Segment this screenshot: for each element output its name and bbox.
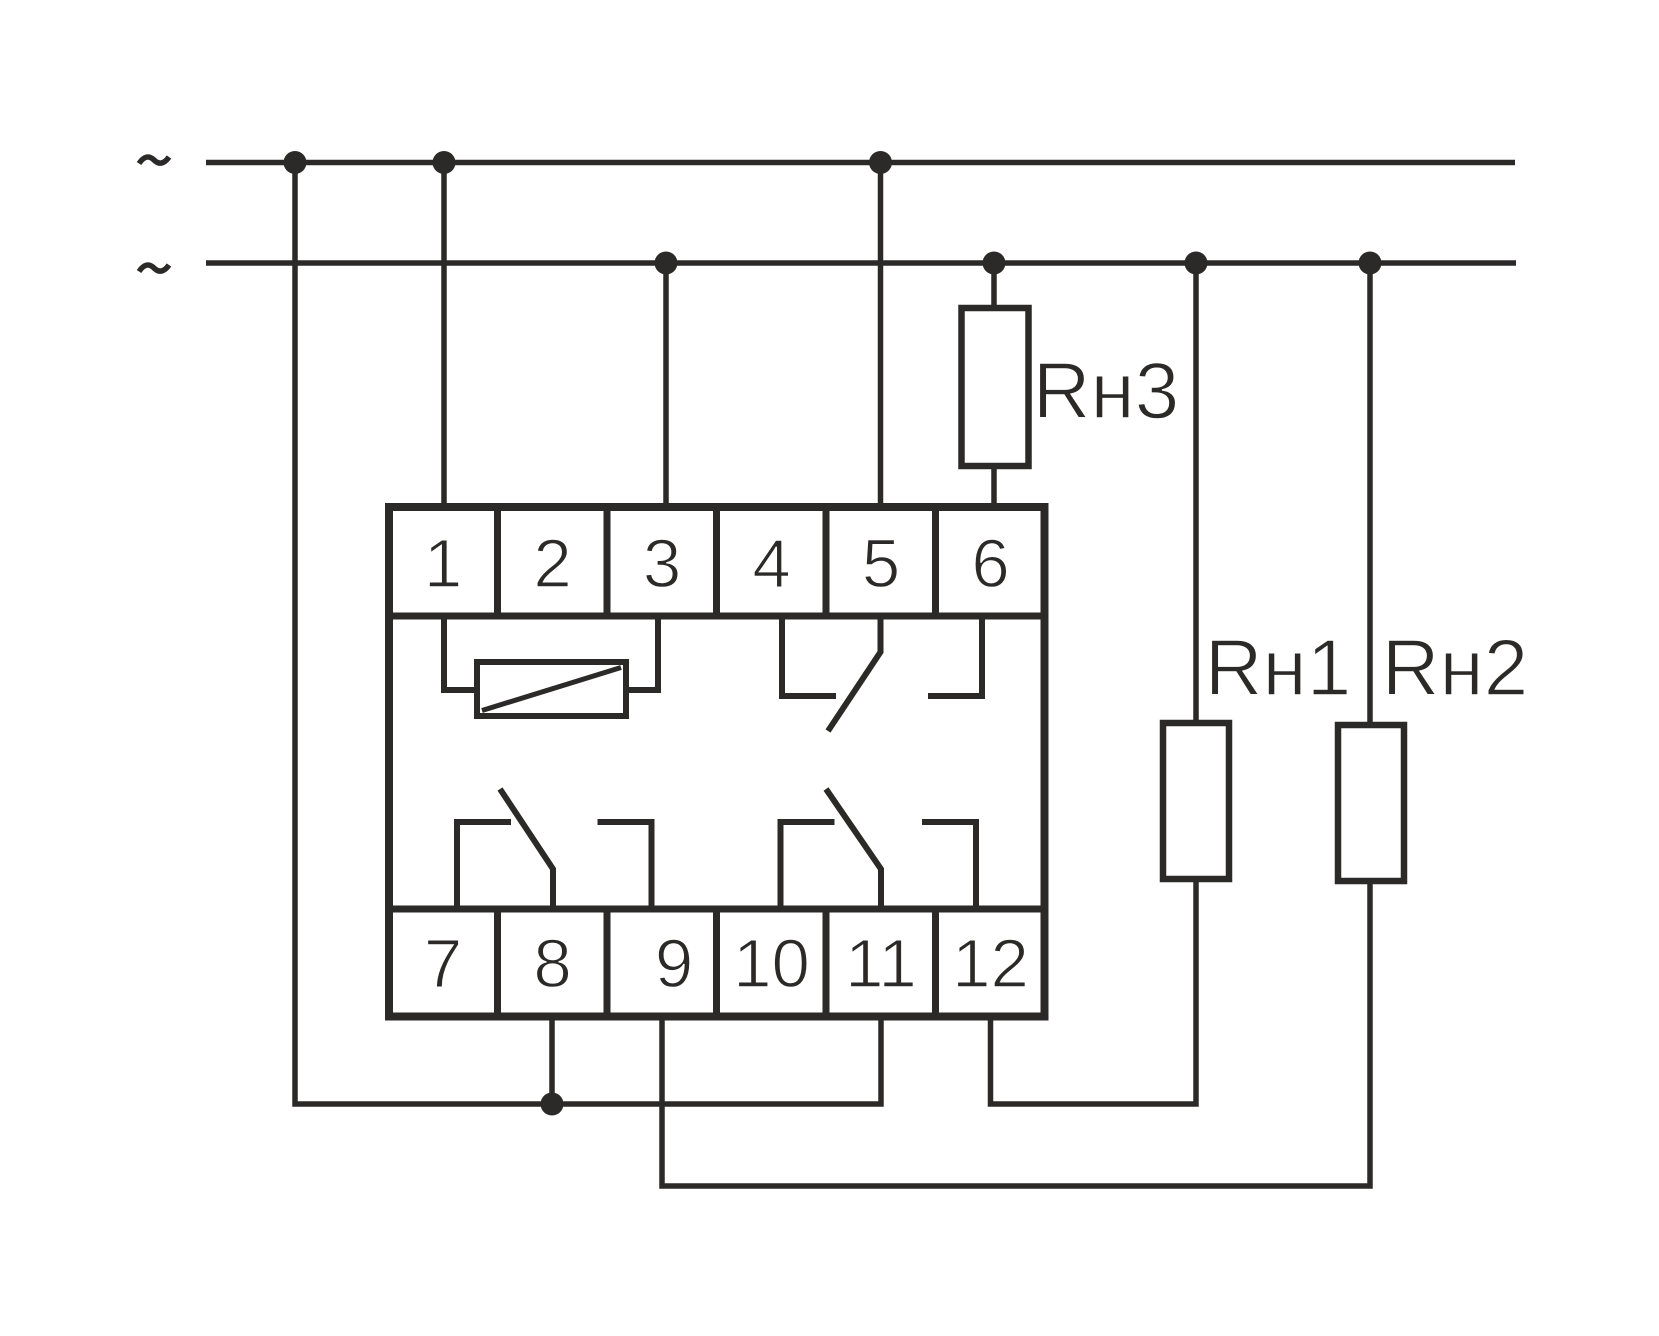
svg-text:8: 8 [533,925,571,1002]
svg-text:3: 3 [643,525,681,602]
svg-text:10: 10 [733,925,810,1002]
svg-text:Rн1: Rн1 [1205,623,1351,712]
svg-text:4: 4 [752,525,790,602]
svg-text:2: 2 [533,525,571,602]
svg-text:9: 9 [655,925,693,1002]
svg-text:11: 11 [845,925,917,1002]
svg-text:5: 5 [862,525,900,602]
svg-text:Rн2: Rн2 [1382,623,1528,712]
svg-text:12: 12 [952,925,1029,1002]
svg-text:6: 6 [971,525,1009,602]
svg-text:7: 7 [424,925,462,1002]
svg-text:1: 1 [424,525,462,602]
svg-text:Rн3: Rн3 [1033,346,1179,435]
